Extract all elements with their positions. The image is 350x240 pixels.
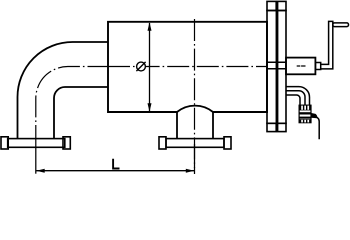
extension line left (solid part under left flange) xyxy=(35,147,37,174)
drain valve lever xyxy=(311,113,317,118)
elbow inner wall xyxy=(54,87,108,139)
drain valve band lower xyxy=(299,117,312,119)
right flange mating face band xyxy=(276,11,278,124)
spindle centerline xyxy=(297,65,306,67)
drain pipe inner wall xyxy=(286,95,300,106)
arrow down xyxy=(148,103,152,112)
outlet neck left wall xyxy=(176,112,178,139)
right flange bolt top-left xyxy=(267,1,276,10)
centerline inlet pipe axis xyxy=(36,67,108,148)
left flange bolt left xyxy=(1,137,8,149)
drain pipe middle wall xyxy=(286,91,305,106)
outlet flange bolt left xyxy=(159,137,166,149)
diameter symbol xyxy=(137,62,146,71)
dimension line diameter xyxy=(149,23,151,111)
centerline horizontal (body axis) xyxy=(108,66,266,68)
drain valve bottom knurl xyxy=(299,119,312,123)
arrow right xyxy=(186,169,195,173)
right flange bolt bottom-left xyxy=(267,123,276,131)
outlet flange bolt right xyxy=(224,137,231,149)
outlet neck intersection arc xyxy=(177,106,213,112)
drain valve band upper xyxy=(299,112,312,114)
spindle housing xyxy=(286,58,315,75)
drain pipe outer wall xyxy=(286,87,310,106)
body (main cylinder) xyxy=(108,22,267,112)
drain valve top knurl xyxy=(299,105,312,111)
elbow outer wall xyxy=(18,42,109,139)
drain valve body xyxy=(299,105,311,123)
left flange plate xyxy=(8,139,65,148)
right flange bolt bottom-right xyxy=(278,123,286,131)
left flange bolt right xyxy=(63,137,70,149)
right flange plate B xyxy=(278,11,286,124)
outlet neck right wall xyxy=(212,112,214,139)
drain valve lever rod xyxy=(316,117,319,140)
outlet flange plate xyxy=(166,139,224,148)
arrow up xyxy=(148,22,152,31)
right flange plate A xyxy=(267,11,276,124)
spindle through flange upper line xyxy=(267,61,286,63)
extension line right (solid part under outlet flange) xyxy=(194,144,196,174)
centerline vertical (outlet axis) xyxy=(194,19,196,168)
crank arm xyxy=(321,21,333,69)
right flange bolt top-right xyxy=(278,1,286,10)
spindle step xyxy=(315,63,320,70)
arrow left xyxy=(36,169,45,173)
crank grip xyxy=(333,23,349,27)
dimension line L xyxy=(36,170,194,172)
spindle through flange lower line xyxy=(267,68,286,70)
label L xyxy=(113,159,119,169)
